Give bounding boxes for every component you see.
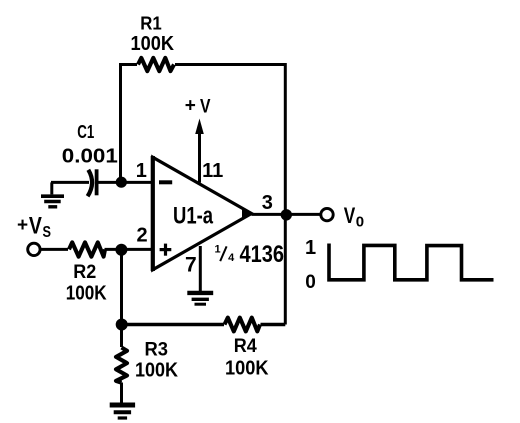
svg-text:R1: R1 [140,13,162,34]
svg-text:1: 1 [215,243,221,255]
svg-text:100K: 100K [135,359,179,381]
svg-text:V: V [200,96,211,117]
svg-text:U1-a: U1-a [173,202,213,229]
svg-text:0: 0 [356,214,364,231]
svg-text:0: 0 [305,272,316,293]
svg-text:C1: C1 [77,122,94,142]
svg-text:0.001: 0.001 [62,145,118,167]
svg-text:4136: 4136 [239,241,284,268]
svg-text:R3: R3 [144,339,168,361]
svg-text:+: + [17,215,28,236]
svg-text:3: 3 [262,192,273,214]
svg-text:R2: R2 [73,261,96,283]
svg-text:V: V [344,203,356,228]
svg-text:2: 2 [137,224,148,246]
svg-text:100K: 100K [131,33,175,55]
svg-text:7: 7 [185,254,197,277]
svg-text:1: 1 [305,237,316,259]
svg-text:+: + [185,95,196,116]
svg-text:11: 11 [202,160,223,182]
svg-text:S: S [42,224,51,241]
svg-text:4: 4 [228,252,235,264]
svg-text:R4: R4 [234,335,257,357]
svg-text:100K: 100K [66,283,107,305]
svg-text:1: 1 [136,160,147,182]
svg-text:V: V [29,213,42,240]
svg-text:100K: 100K [225,357,269,379]
